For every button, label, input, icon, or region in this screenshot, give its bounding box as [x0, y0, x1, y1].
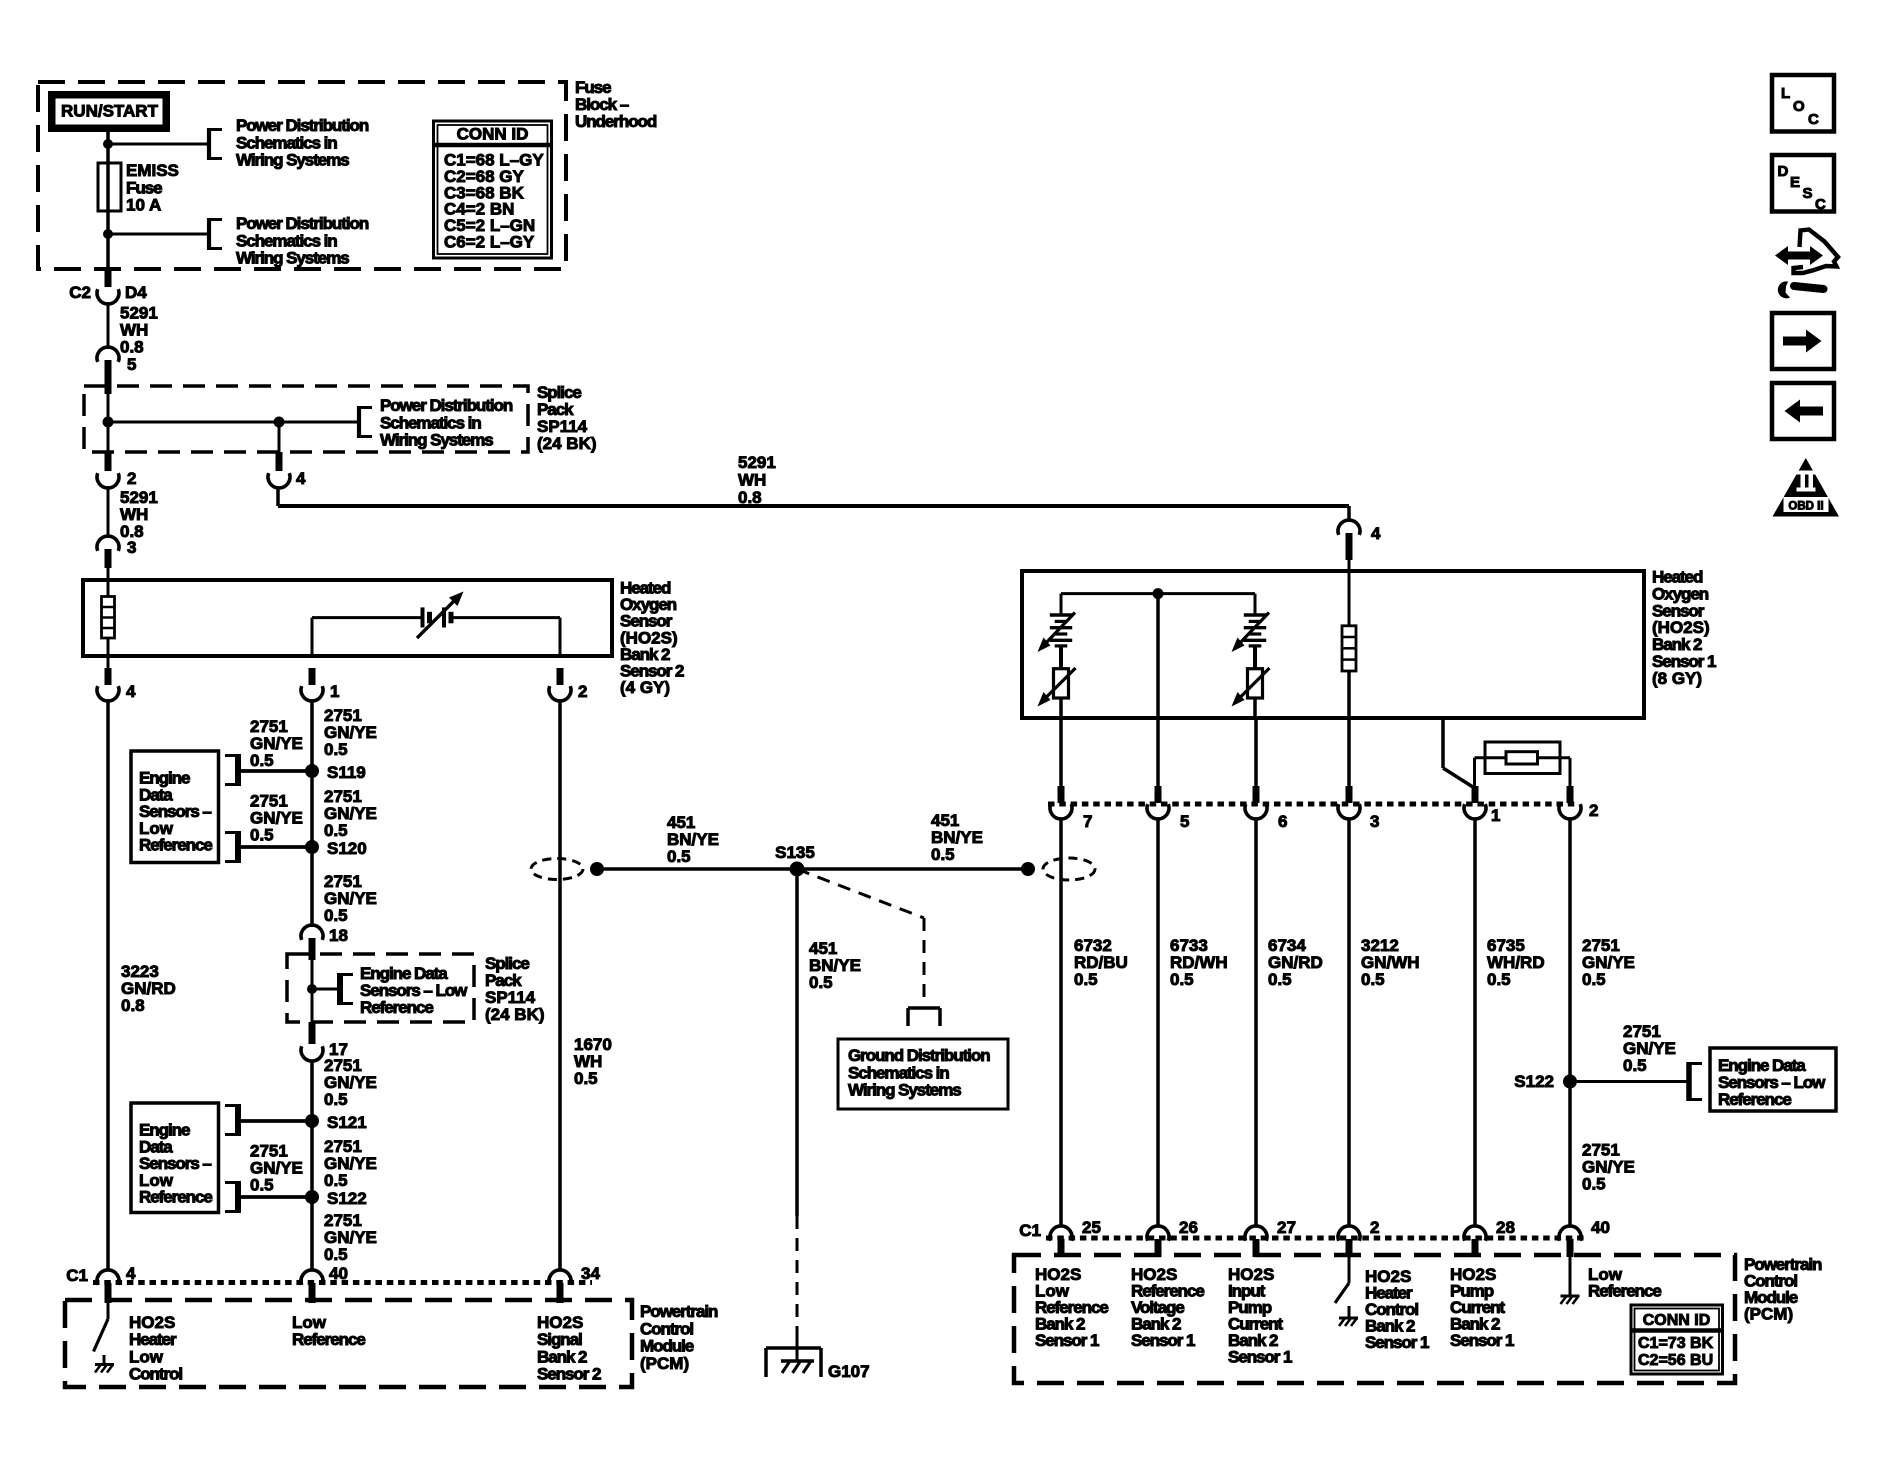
connector pin 2 (PCM C1 right)	[1338, 1226, 1360, 1241]
svg-text:Wiring Systems: Wiring Systems	[380, 431, 493, 450]
svg-text:1: 1	[1491, 806, 1500, 825]
svg-text:Powertrain: Powertrain	[640, 1302, 718, 1321]
wire bracket to S119	[238, 769, 312, 773]
node splice S135	[790, 862, 805, 877]
oxygen sensing element 1 (B2S1)	[1060, 594, 1063, 614]
fuse EMISS 10 A	[98, 163, 121, 211]
splice pack SP114 (24 BK) lower dashed enclosure	[287, 954, 474, 1022]
svg-text:Reference: Reference	[1718, 1090, 1791, 1109]
svg-text:(24 BK): (24 BK)	[537, 434, 597, 453]
wire into B2S2 heater	[107, 568, 110, 597]
svg-text:HO2S: HO2S	[537, 1313, 583, 1332]
svg-text:Wiring Systems: Wiring Systems	[236, 151, 349, 170]
svg-text:(PCM): (PCM)	[1744, 1305, 1793, 1324]
connector terminal 4 (splice pack out right)	[276, 452, 283, 471]
svg-text:26: 26	[1179, 1218, 1198, 1237]
harness ellipse right	[1043, 858, 1095, 880]
connector row PCM C1 (left)	[93, 1280, 592, 1285]
node junction at fuse feed	[103, 139, 113, 149]
svg-text:C1=73 BK: C1=73 BK	[1638, 1335, 1714, 1352]
wire 2751 GN/YE 0.5 (right)	[1568, 819, 1572, 1226]
svg-text:4: 4	[296, 469, 306, 488]
CONN ID table (PCM)	[1631, 1305, 1723, 1374]
splice pack SP114 (24 BK) dashed enclosure	[84, 386, 528, 452]
connector row PCM C1 (right)	[1046, 1236, 1585, 1241]
component Engine Data Sensors - Low Reference box (right)	[1710, 1048, 1836, 1111]
svg-text:(24 BK): (24 BK)	[485, 1005, 545, 1024]
wire to power distribution reference 2	[108, 233, 209, 236]
svg-text:0.8: 0.8	[120, 338, 144, 357]
svg-text:4: 4	[126, 682, 136, 701]
svg-text:Bank 2: Bank 2	[537, 1347, 587, 1366]
wire 3212 GN/WH 0.5	[1347, 819, 1351, 1226]
connector pin 4 (B2S2)	[107, 656, 110, 670]
svg-text:6: 6	[1278, 812, 1287, 831]
svg-text:L: L	[1781, 85, 1790, 102]
bracket Engine Data Sensors box2 lower	[235, 1181, 241, 1213]
fuse block - underhood (dashed enclosure)	[38, 82, 566, 269]
wire to power distribution reference 1	[108, 143, 209, 146]
ground HO2S heater low control	[103, 1355, 106, 1364]
svg-text:EMISS: EMISS	[126, 161, 179, 180]
connector pin 25 (PCM C1 right)	[1050, 1226, 1072, 1241]
svg-text:RUN/START: RUN/START	[61, 102, 159, 121]
connector pin 2 (B2S2)	[557, 668, 564, 685]
page reference bracket 2	[207, 218, 211, 250]
svg-text:Wiring Systems: Wiring Systems	[848, 1081, 961, 1100]
wire 5291 WH 0.8 long run to HO2S B2S1	[276, 488, 280, 506]
svg-text:0.5: 0.5	[574, 1069, 598, 1088]
wire junction down to pin 4	[278, 422, 281, 452]
connector terminal 3 (to HO2S B2S2)	[97, 536, 119, 551]
connector terminal 2 (splice pack out left)	[105, 452, 112, 471]
wire into splice pack	[107, 394, 110, 452]
svg-text:(PCM): (PCM)	[640, 1354, 689, 1373]
svg-text:Schematics in: Schematics in	[236, 231, 337, 250]
svg-text:7: 7	[1083, 812, 1092, 831]
connector pin 3 (B2S1)	[1346, 786, 1353, 803]
svg-text:Control: Control	[640, 1319, 693, 1338]
svg-text:0.8: 0.8	[738, 488, 762, 507]
connector pin 28 (PCM C1 right)	[1464, 1226, 1486, 1241]
svg-text:18: 18	[329, 926, 348, 945]
component Engine Data Sensors - Low Reference box 2	[131, 1103, 219, 1213]
wire 6734 GN/RD 0.5	[1254, 819, 1258, 1226]
svg-text:Reference: Reference	[1588, 1282, 1661, 1301]
svg-text:HO2S: HO2S	[129, 1313, 175, 1332]
svg-text:CONN ID: CONN ID	[1643, 1312, 1711, 1329]
wire 2751 GN/YE lower segment	[310, 1061, 314, 1270]
node wire 451 right end	[1021, 862, 1035, 876]
connector terminal 17 (splice pack lower out)	[309, 1022, 316, 1044]
label box Ground Distribution Schematics in Wiring Systems	[838, 1039, 1008, 1109]
wire RUN/START to EMISS fuse	[106, 128, 110, 269]
component Engine Data Sensors - Low Reference box 1	[131, 751, 219, 863]
svg-text:2: 2	[578, 682, 587, 701]
icon back arrow	[1772, 383, 1834, 439]
wire 1670 WH 0.5 (HO2S signal)	[558, 701, 562, 1270]
page reference bracket 3	[357, 406, 361, 438]
svg-text:0.5: 0.5	[1623, 1056, 1647, 1075]
icon forward arrow	[1772, 313, 1834, 369]
svg-text:0.5: 0.5	[324, 1090, 348, 1109]
svg-text:Module: Module	[640, 1337, 694, 1356]
connector pin 1 (B2S1)	[1472, 786, 1479, 803]
connector row HO2S B2S1	[1048, 802, 1578, 807]
svg-text:0.5: 0.5	[931, 845, 955, 864]
heater element (B2S2)	[102, 597, 115, 639]
svg-text:5: 5	[127, 355, 136, 374]
node wire 451 left end	[590, 862, 604, 876]
page reference bracket 1	[207, 128, 211, 160]
connector pin 27 (PCM C1 right)	[1245, 1226, 1267, 1241]
svg-text:Sensor 1: Sensor 1	[1131, 1331, 1195, 1350]
svg-text:Ground Distribution: Ground Distribution	[848, 1046, 990, 1065]
svg-text:C6=2 L–GY: C6=2 L–GY	[444, 233, 535, 252]
bracket to Engine Data Sensors reference	[337, 973, 343, 1005]
svg-text:5: 5	[1180, 812, 1189, 831]
svg-text:0.5: 0.5	[809, 973, 833, 992]
node splice S120	[305, 840, 319, 854]
node splice junction right (to pin 4)	[274, 417, 285, 428]
svg-text:C2=56 BU: C2=56 BU	[1638, 1352, 1713, 1369]
svg-text:S135: S135	[775, 843, 815, 862]
connector pin 26 (PCM C1 right)	[1147, 1226, 1169, 1241]
svg-text:4: 4	[1371, 524, 1381, 543]
node splice S121	[305, 1114, 319, 1128]
wire 451 BN/YE 0.5 right segment	[797, 867, 1028, 871]
connector pin 2 (B2S1)	[1567, 786, 1574, 803]
wire B2S1 pin 7 above	[1059, 718, 1063, 786]
switch HO2S heater low control	[107, 1303, 110, 1319]
svg-text:S: S	[1803, 185, 1813, 202]
svg-text:25: 25	[1082, 1218, 1101, 1237]
wire 451 BN/YE 0.5 down to G107	[795, 869, 799, 1216]
svg-text:0.5: 0.5	[1074, 970, 1098, 989]
ground HO2S heater control	[1348, 1306, 1351, 1318]
svg-text:28: 28	[1496, 1218, 1515, 1237]
svg-text:0.5: 0.5	[324, 1171, 348, 1190]
connector terminal 4 (HO2S B2S1)	[1338, 520, 1360, 535]
component HO2S Bank 2 Sensor 2 (4 GY) enclosure	[83, 580, 612, 656]
wire 451 BN/YE 0.5 left segment	[597, 867, 797, 871]
svg-text:Reference: Reference	[139, 836, 212, 855]
svg-text:1: 1	[330, 682, 339, 701]
svg-text:Reference: Reference	[292, 1330, 365, 1349]
connector terminal 18 (splice pack SP114 lower in)	[301, 925, 323, 940]
oxygen sensing element 2 (B2S1)	[1254, 594, 1257, 614]
svg-text:Fuse: Fuse	[126, 178, 162, 197]
svg-text:0.5: 0.5	[1582, 1175, 1606, 1194]
svg-text:2: 2	[1370, 1218, 1379, 1237]
svg-text:0.8: 0.8	[121, 996, 145, 1015]
svg-text:4: 4	[126, 1264, 136, 1283]
ground low reference (PCM)	[1569, 1257, 1572, 1296]
wire bracket to S121	[238, 1119, 312, 1123]
svg-text:0.5: 0.5	[250, 1176, 274, 1195]
svg-text:Power Distribution: Power Distribution	[236, 116, 369, 135]
svg-text:OBD II: OBD II	[1788, 501, 1823, 513]
svg-text:0.5: 0.5	[1361, 970, 1385, 989]
harness ellipse left	[531, 859, 583, 880]
svg-text:10 A: 10 A	[126, 196, 161, 215]
connector pin 4 (PCM C1)	[97, 1270, 119, 1285]
connector C2 terminal D4	[105, 269, 112, 287]
svg-text:S121: S121	[327, 1113, 367, 1132]
svg-text:CONN ID: CONN ID	[457, 125, 529, 144]
svg-text:S119: S119	[327, 763, 366, 782]
icon wrench	[1794, 286, 1824, 289]
icon vehicle double arrow	[1775, 246, 1823, 265]
wire B2S1 pigtail to pin 1	[1441, 718, 1445, 768]
svg-text:Reference: Reference	[139, 1188, 212, 1207]
svg-text:Sensor 1: Sensor 1	[1450, 1331, 1514, 1350]
wire bracket to S122	[238, 1195, 312, 1199]
svg-text:3: 3	[1370, 812, 1379, 831]
svg-text:0.5: 0.5	[324, 740, 348, 759]
svg-text:Wiring Systems: Wiring Systems	[236, 249, 349, 268]
svg-text:D4: D4	[125, 283, 147, 302]
component HO2S Bank 2 Sensor 1 (8 GY) enclosure	[1022, 571, 1644, 718]
svg-text:Heater: Heater	[129, 1330, 177, 1349]
node sensing bus junction	[1153, 588, 1164, 599]
svg-text:(4 GY): (4 GY)	[620, 678, 670, 697]
wire 6732 RD/BU 0.5	[1059, 819, 1063, 1226]
wire junction to pin 5	[1156, 594, 1160, 786]
component Powertrain Control Module (PCM) left enclosure	[65, 1300, 632, 1387]
wire inside lower splice pack	[311, 960, 314, 1022]
svg-text:C: C	[1808, 111, 1819, 128]
icon OBD II	[1773, 458, 1840, 517]
svg-text:3: 3	[127, 538, 136, 557]
svg-text:0.5: 0.5	[324, 1245, 348, 1264]
svg-text:0.5: 0.5	[1268, 970, 1292, 989]
svg-text:40: 40	[329, 1264, 348, 1283]
svg-text:C: C	[1815, 196, 1826, 213]
svg-text:0.5: 0.5	[324, 906, 348, 925]
svg-text:Power Distribution: Power Distribution	[380, 396, 513, 415]
connector housing with resistor (B2S1 pins 1-2)	[1485, 742, 1560, 774]
wire 5291 WH 0.8 (lower)	[107, 488, 110, 538]
svg-text:G107: G107	[828, 1362, 870, 1381]
connector pin 5 (B2S1)	[1155, 786, 1162, 803]
bracket Engine Data Sensors box1 upper	[235, 754, 241, 786]
wire sensing bus (B2S1)	[1061, 592, 1255, 595]
svg-text:Control: Control	[129, 1365, 182, 1384]
icon DESC	[1772, 155, 1834, 212]
svg-text:Low: Low	[129, 1347, 164, 1366]
svg-text:Sensor 1: Sensor 1	[1035, 1331, 1099, 1350]
svg-text:0.5: 0.5	[1170, 970, 1194, 989]
wire 2751 GN/YE (low reference) upper segment	[310, 701, 314, 927]
svg-text:O: O	[1793, 98, 1805, 115]
svg-text:Signal: Signal	[537, 1330, 582, 1349]
connector pin 6 (B2S1)	[1253, 786, 1260, 803]
connector pin 7 (B2S1)	[1058, 786, 1065, 803]
svg-text:0.5: 0.5	[1582, 970, 1606, 989]
connector pin 34 (PCM C1)	[549, 1270, 571, 1285]
svg-text:Schematics in: Schematics in	[236, 133, 337, 152]
ground G107	[796, 1334, 799, 1361]
svg-text:34: 34	[581, 1264, 600, 1283]
wire splice to reference bracket	[108, 421, 359, 424]
wire S122 to engine data sensors reference	[1570, 1080, 1689, 1083]
svg-text:Schematics in: Schematics in	[848, 1063, 949, 1082]
connector pin 40 (PCM C1)	[301, 1270, 323, 1285]
wire 6733 RD/WH 0.5	[1156, 819, 1160, 1226]
svg-text:Power Distribution: Power Distribution	[236, 214, 369, 233]
bracket to ground distribution box	[908, 1006, 940, 1010]
svg-text:Sensor 2: Sensor 2	[537, 1365, 601, 1384]
svg-text:2: 2	[127, 469, 136, 488]
wire 3223 GN/RD 0.8 (HO2S heater low control)	[106, 701, 110, 1270]
svg-text:0.5: 0.5	[667, 847, 691, 866]
svg-text:E: E	[1790, 174, 1800, 191]
svg-text:27: 27	[1277, 1218, 1296, 1237]
node junction at fuse output	[103, 229, 113, 239]
svg-text:0.5: 0.5	[1487, 970, 1511, 989]
node splice S122	[305, 1190, 319, 1204]
svg-text:2: 2	[1589, 801, 1598, 820]
bracket Engine Data Sensors box2 upper	[235, 1104, 241, 1136]
CONN ID table (fuse block)	[434, 121, 552, 258]
svg-text:D: D	[1778, 163, 1789, 180]
component Powertrain Control Module (PCM) right enclosure	[1014, 1255, 1735, 1383]
dashed wire S135 to ground distribution	[797, 869, 924, 918]
svg-text:40: 40	[1591, 1218, 1610, 1237]
svg-text:Underhood: Underhood	[575, 112, 657, 131]
svg-text:S120: S120	[327, 839, 367, 858]
icon LOC	[1772, 75, 1834, 132]
node splice S122 (right)	[1563, 1075, 1577, 1089]
svg-text:Low: Low	[292, 1313, 327, 1332]
switch position RUN/START	[52, 95, 167, 129]
switch HO2S heater control (PCM)	[1348, 1257, 1351, 1283]
bracket to Engine Data Sensors box (right)	[1686, 1062, 1692, 1101]
wire B2S2 heater to pin 4	[107, 638, 110, 670]
svg-text:C1: C1	[66, 1266, 88, 1285]
svg-text:0.5: 0.5	[324, 821, 348, 840]
svg-text:0.5: 0.5	[250, 826, 274, 845]
svg-text:Sensor 1: Sensor 1	[1228, 1348, 1292, 1367]
svg-text:0.5: 0.5	[250, 751, 274, 770]
svg-text:S122: S122	[1514, 1072, 1554, 1091]
connector pin 1 (B2S2)	[309, 668, 316, 685]
svg-text:Sensor 1: Sensor 1	[1365, 1333, 1429, 1352]
wire bracket to S120	[238, 845, 312, 849]
heater element (B2S1)	[1348, 556, 1351, 626]
svg-text:WH: WH	[738, 471, 766, 490]
svg-text:Schematics in: Schematics in	[380, 413, 481, 432]
node splice junction left	[103, 417, 114, 428]
svg-text:5291: 5291	[738, 453, 776, 472]
sensing element circuit wires (B2S2)	[311, 618, 314, 656]
svg-text:S122: S122	[327, 1189, 367, 1208]
connector pin 40 (PCM C1 right)	[1559, 1226, 1581, 1241]
bracket Engine Data Sensors box1 lower	[235, 831, 241, 863]
connector terminal 5 (splice pack SP114 in)	[97, 347, 119, 362]
svg-text:C1: C1	[1019, 1221, 1041, 1240]
wire 5291 WH 0.8 (upper)	[107, 304, 110, 349]
svg-text:C2: C2	[69, 283, 91, 302]
svg-text:Reference: Reference	[360, 998, 433, 1017]
node splice S119	[305, 764, 319, 778]
wire 6735 WH/RD 0.5	[1473, 819, 1477, 1226]
node splice junction (lower splice pack)	[307, 984, 317, 994]
variable battery sensing element (B2S2)	[421, 607, 425, 627]
svg-text:(8 GY): (8 GY)	[1652, 669, 1702, 688]
